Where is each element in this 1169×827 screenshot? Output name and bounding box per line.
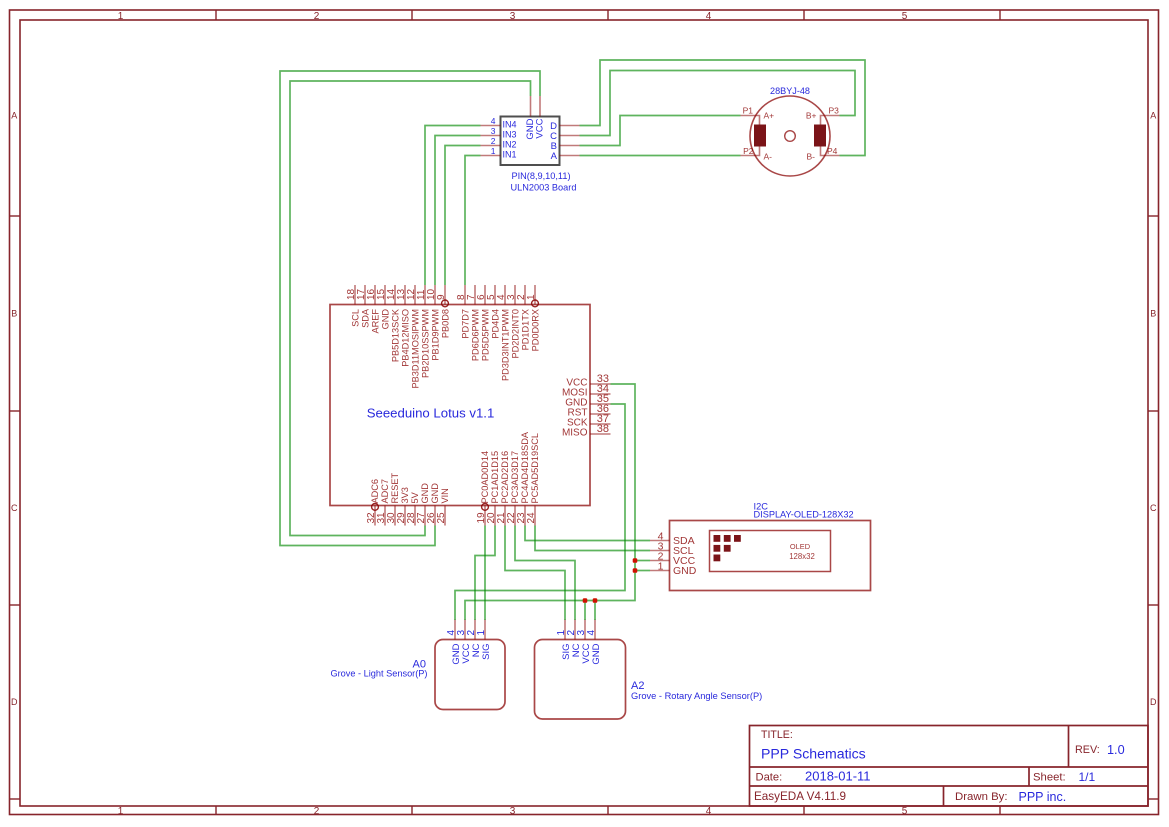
svg-text:Date:: Date: xyxy=(756,772,783,784)
svg-text:IN3: IN3 xyxy=(503,130,517,140)
wire B to motor P1 xyxy=(580,116,741,146)
Seeeduino bottom pin 32 inversion circle xyxy=(372,504,379,511)
svg-text:C: C xyxy=(1150,503,1157,513)
title block row divider 2 xyxy=(750,785,1149,787)
wire pin20 to A0 NC xyxy=(475,526,495,621)
svg-text:PB3D11MOSIPWM: PB3D11MOSIPWM xyxy=(410,309,420,388)
svg-text:PC4AD4D18SDA: PC4AD4D18SDA xyxy=(520,431,530,503)
sensor A2 pins 1,2,3,4 xyxy=(564,620,566,640)
wire A2 GND to bus xyxy=(594,601,596,621)
svg-text:2: 2 xyxy=(314,806,320,817)
svg-text:PB1D9PWM: PB1D9PWM xyxy=(430,309,440,361)
svg-text:AREF: AREF xyxy=(370,309,380,334)
wire D to motor P4 xyxy=(580,60,866,156)
svg-text:PD4D4: PD4D4 xyxy=(490,309,500,339)
svg-text:5V: 5V xyxy=(410,491,420,503)
svg-text:3V3: 3V3 xyxy=(400,487,410,503)
svg-text:VIN: VIN xyxy=(440,488,450,503)
frame column ticks top xyxy=(215,10,217,20)
svg-text:4: 4 xyxy=(586,630,597,636)
svg-text:28BYJ-48: 28BYJ-48 xyxy=(770,86,810,96)
OLED screen inner rect xyxy=(710,531,831,572)
svg-text:PPP inc.: PPP inc. xyxy=(1019,790,1067,804)
motor pin P2 xyxy=(741,147,760,156)
svg-text:2018-01-11: 2018-01-11 xyxy=(805,769,871,784)
svg-text:B: B xyxy=(11,309,17,319)
Seeeduino top pin 1 inversion circle xyxy=(532,300,539,307)
frame row ticks right xyxy=(1148,215,1159,217)
svg-text:ADC7: ADC7 xyxy=(380,479,390,504)
ULN2003 right pins D C B A xyxy=(560,125,580,127)
svg-text:P2: P2 xyxy=(743,146,754,156)
Seeeduino Lotus body xyxy=(330,305,590,506)
svg-text:P4: P4 xyxy=(827,146,838,156)
svg-text:PC2AD2D16: PC2AD2D16 xyxy=(500,451,510,504)
wire A to motor P2 xyxy=(580,155,741,157)
junction dot A2 VCC xyxy=(583,598,588,603)
svg-text:Drawn By:: Drawn By: xyxy=(955,791,1008,803)
svg-text:GND: GND xyxy=(430,483,440,504)
motor body circle xyxy=(750,96,830,176)
wire VCC net pin33 to bus xyxy=(465,384,635,620)
svg-text:25: 25 xyxy=(436,512,447,524)
wire IN4 to D11 (pin11) xyxy=(425,126,481,286)
svg-text:2: 2 xyxy=(314,11,320,22)
sensor A2 body xyxy=(535,640,626,720)
svg-text:Sheet:: Sheet: xyxy=(1033,772,1066,784)
svg-text:A: A xyxy=(1150,111,1156,121)
svg-text:SIG: SIG xyxy=(481,644,492,660)
svg-text:RESET: RESET xyxy=(390,472,400,503)
svg-text:PPP Schematics: PPP Schematics xyxy=(761,746,866,762)
svg-text:A2: A2 xyxy=(631,680,644,692)
OLED pins 4-1 xyxy=(650,540,670,542)
svg-text:EasyEDA V4.11.9: EasyEDA V4.11.9 xyxy=(754,790,846,803)
svg-text:PB0D8: PB0D8 xyxy=(440,309,450,338)
ULN2003 left pins IN4-IN1 xyxy=(481,125,501,127)
Seeeduino right pins 33-38 xyxy=(590,383,611,385)
svg-text:VCC: VCC xyxy=(535,118,546,138)
wire pin21 to A2 SIG xyxy=(505,526,565,621)
svg-text:PD6D6PWM: PD6D6PWM xyxy=(470,309,480,361)
svg-text:1: 1 xyxy=(491,146,496,156)
svg-text:IN1: IN1 xyxy=(503,150,517,160)
Seeeduino top pins 18-1 xyxy=(354,285,356,305)
junction dot OLED GND xyxy=(633,568,638,573)
svg-text:PB5D13SCK: PB5D13SCK xyxy=(390,308,400,362)
svg-text:5: 5 xyxy=(902,11,908,22)
wire ULN VCC to pin26 xyxy=(280,71,540,546)
wire OLED VCC stub link xyxy=(635,560,650,562)
svg-text:D: D xyxy=(11,697,18,707)
wire pin23 to OLED SDA xyxy=(525,526,650,541)
svg-text:MISO: MISO xyxy=(562,428,588,439)
OLED screen pixel squares xyxy=(714,535,721,542)
svg-text:P3: P3 xyxy=(829,105,840,115)
svg-text:1/1: 1/1 xyxy=(1079,770,1096,784)
svg-text:PD3D3INT1PWM: PD3D3INT1PWM xyxy=(500,309,510,381)
Seeeduino bottom pin 19 inversion circle xyxy=(482,504,489,511)
sensor A0 body xyxy=(435,640,505,710)
motor coil B xyxy=(814,125,826,147)
motor pin P4 xyxy=(821,147,840,156)
svg-text:P1: P1 xyxy=(743,105,754,115)
svg-text:PB4D12MISO: PB4D12MISO xyxy=(400,309,410,367)
svg-text:GND: GND xyxy=(673,565,697,577)
svg-text:3: 3 xyxy=(510,806,516,817)
svg-text:OLED: OLED xyxy=(790,542,810,551)
svg-text:3: 3 xyxy=(510,11,516,22)
svg-text:PD7D7: PD7D7 xyxy=(460,309,470,339)
svg-text:4: 4 xyxy=(491,116,496,126)
svg-text:128x32: 128x32 xyxy=(789,552,815,561)
svg-text:GND: GND xyxy=(420,483,430,504)
svg-text:Seeeduino Lotus v1.1: Seeeduino Lotus v1.1 xyxy=(367,406,495,421)
motor shaft circle xyxy=(785,131,796,142)
svg-text:PD0D0RX: PD0D0RX xyxy=(530,309,540,351)
title block row divider 1 xyxy=(750,766,1149,768)
OLED body xyxy=(670,521,871,591)
svg-text:24: 24 xyxy=(526,512,537,524)
svg-text:1: 1 xyxy=(476,630,487,636)
svg-text:C: C xyxy=(11,503,18,513)
svg-text:PB2D10SSPWM: PB2D10SSPWM xyxy=(420,309,430,378)
svg-text:2: 2 xyxy=(491,136,496,146)
svg-text:9: 9 xyxy=(436,294,447,300)
Seeeduino bottom pins 32-25 19-24 xyxy=(374,506,376,526)
svg-text:SDA: SDA xyxy=(360,308,370,328)
svg-text:B-: B- xyxy=(807,151,816,161)
svg-text:ULN2003 Board: ULN2003 Board xyxy=(511,183,577,193)
junction dot A2 GND xyxy=(593,598,598,603)
svg-text:PD2D2INT0: PD2D2INT0 xyxy=(510,309,520,359)
motor coil A xyxy=(754,125,766,147)
svg-text:GND: GND xyxy=(380,309,390,330)
svg-text:1: 1 xyxy=(658,561,664,573)
title block Drawn-By cell divider xyxy=(943,786,945,806)
wire GND net pin35 to A0 GND xyxy=(455,404,625,620)
title block outline xyxy=(750,726,1149,807)
svg-text:B+: B+ xyxy=(806,110,817,120)
svg-text:Grove - Rotary Angle Sensor(P): Grove - Rotary Angle Sensor(P) xyxy=(631,691,762,701)
svg-text:PD5D5PWM: PD5D5PWM xyxy=(480,309,490,361)
wire pin22 to A2 NC xyxy=(515,526,575,621)
svg-text:1: 1 xyxy=(118,806,124,817)
svg-text:38: 38 xyxy=(597,423,609,435)
svg-text:PC3AD3D17: PC3AD3D17 xyxy=(510,451,520,504)
svg-text:PC0AD0D14: PC0AD0D14 xyxy=(480,451,490,504)
svg-text:PD1D1TX: PD1D1TX xyxy=(520,309,530,350)
motor pin P1 xyxy=(741,116,760,125)
title block REV cell divider xyxy=(1068,726,1070,768)
svg-text:GND: GND xyxy=(591,643,602,664)
wire OLED GND stub link xyxy=(635,570,650,572)
svg-text:5: 5 xyxy=(902,806,908,817)
svg-text:DISPLAY-OLED-128X32: DISPLAY-OLED-128X32 xyxy=(754,510,854,520)
svg-text:PC1AD1D15: PC1AD1D15 xyxy=(490,451,500,504)
wire ULN GND to pin27 xyxy=(290,81,531,536)
Seeeduino top pin 9 inversion circle xyxy=(442,300,449,307)
svg-text:A: A xyxy=(11,111,17,121)
svg-text:SCL: SCL xyxy=(350,309,360,327)
svg-text:PC5AD5D19SCL: PC5AD5D19SCL xyxy=(530,433,540,503)
ULN2003 board body xyxy=(501,117,560,166)
svg-text:4: 4 xyxy=(706,11,712,22)
sensor A0 pins 4,3,2,1 xyxy=(454,620,456,640)
svg-text:1: 1 xyxy=(526,294,537,300)
wire pin24 to OLED SCL xyxy=(535,526,650,551)
svg-text:TITLE:: TITLE: xyxy=(761,729,793,741)
svg-text:REV:: REV: xyxy=(1075,744,1100,756)
frame column ticks bottom xyxy=(215,806,217,815)
svg-text:4: 4 xyxy=(706,806,712,817)
junction dot OLED VCC xyxy=(633,558,638,563)
wire IN3 to D10 (pin10) xyxy=(435,136,481,286)
svg-text:1.0: 1.0 xyxy=(1107,743,1125,757)
svg-text:ADC6: ADC6 xyxy=(370,479,380,504)
frame row ticks left xyxy=(10,215,21,217)
wire A2 VCC to bus xyxy=(584,601,586,621)
svg-text:D: D xyxy=(1150,697,1157,707)
svg-text:1: 1 xyxy=(118,11,124,22)
svg-text:Grove - Light Sensor(P): Grove - Light Sensor(P) xyxy=(330,669,427,679)
svg-text:A: A xyxy=(551,151,558,162)
motor pin P3 xyxy=(821,116,840,125)
svg-text:3: 3 xyxy=(491,126,496,136)
wire C to motor P3 xyxy=(580,71,856,136)
svg-text:PIN(8,9,10,11): PIN(8,9,10,11) xyxy=(511,171,570,181)
wire pin19 to A0 SIG xyxy=(484,526,486,621)
svg-text:B: B xyxy=(1150,309,1156,319)
svg-text:IN4: IN4 xyxy=(503,120,517,130)
wire IN2 to D9 (pin9) xyxy=(445,146,481,286)
title block Sheet cell divider xyxy=(1028,767,1030,786)
wire IN1 to D8 (pin8) xyxy=(465,156,481,286)
svg-text:A+: A+ xyxy=(764,110,775,120)
svg-text:A-: A- xyxy=(764,151,773,161)
svg-text:IN2: IN2 xyxy=(503,140,517,150)
ULN2003 top pins GND VCC xyxy=(530,96,532,117)
